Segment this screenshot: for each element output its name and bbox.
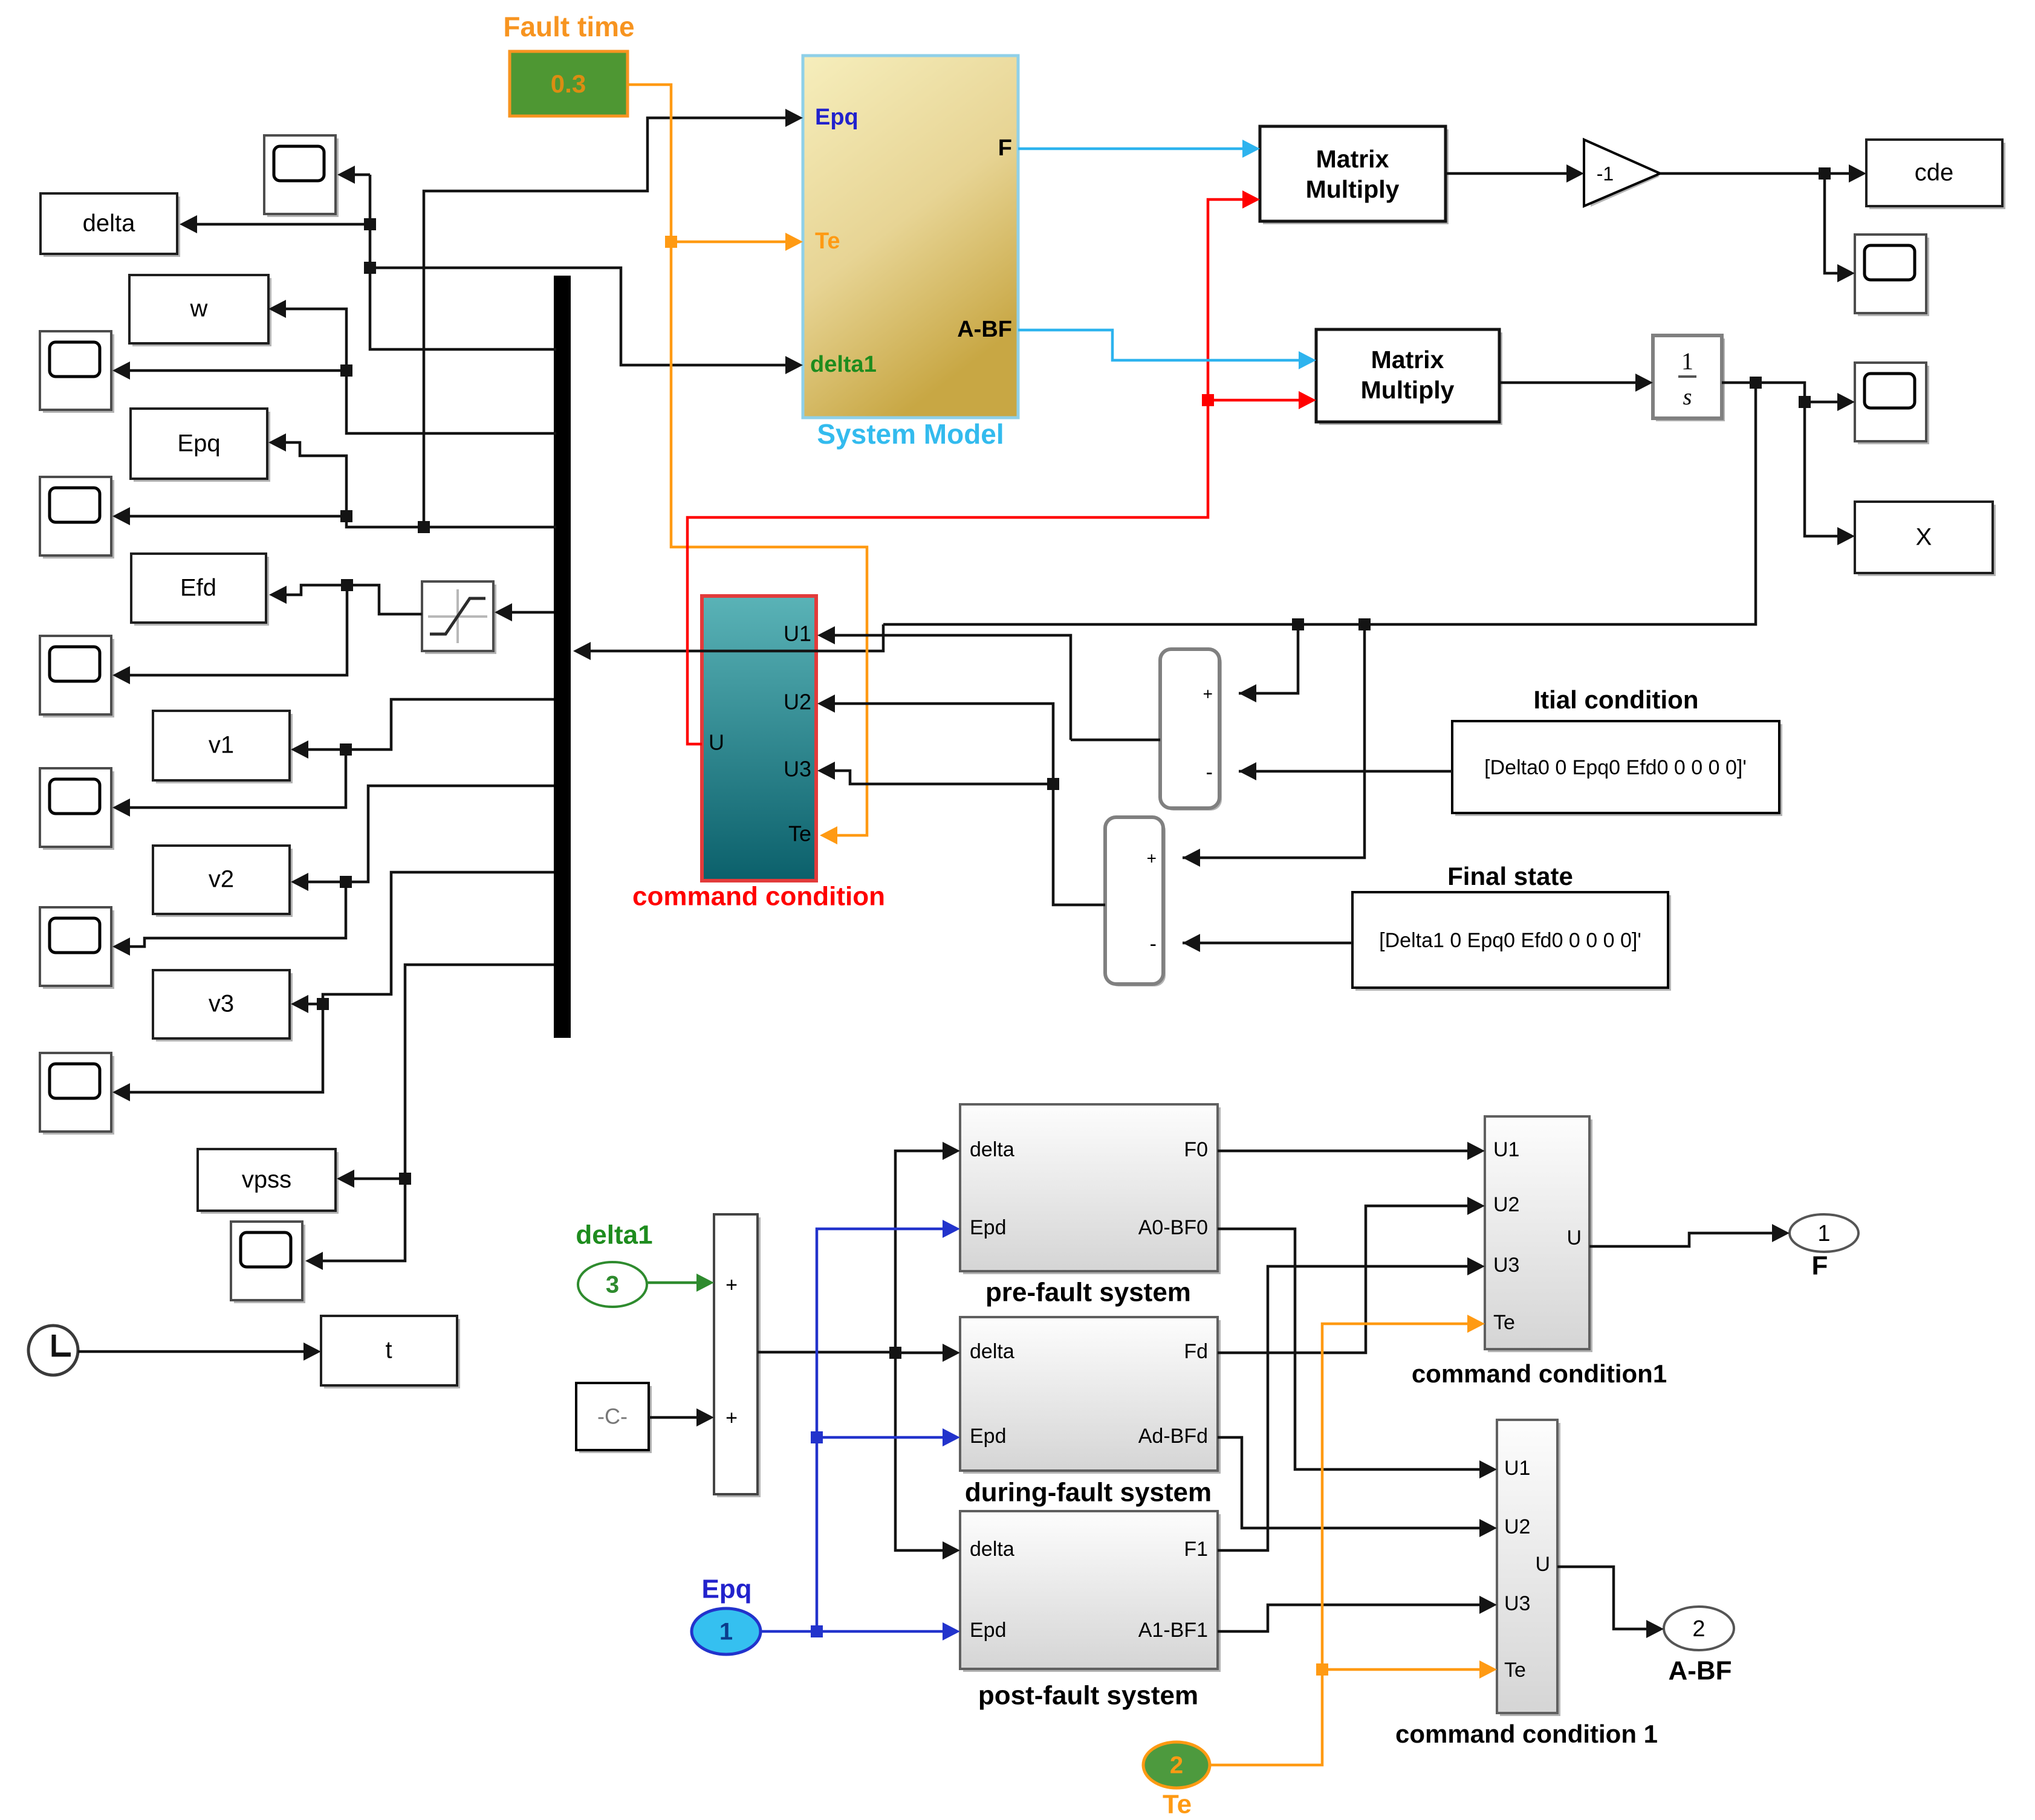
wire delta to during — [895, 1344, 960, 1362]
label pre-fault system — [985, 1278, 1191, 1307]
scope D — [40, 636, 114, 717]
label Fault time — [503, 11, 634, 42]
goto block X — [1855, 502, 1996, 576]
svg-text:Matrix: Matrix — [1316, 145, 1389, 173]
svg-text:A-BF: A-BF — [1668, 1656, 1732, 1686]
svg-text:Multiply: Multiply — [1361, 376, 1455, 404]
label A-BF (outport) — [1668, 1656, 1732, 1686]
svg-text:command condition: command condition — [632, 882, 885, 912]
wire delta to pre — [895, 1142, 960, 1352]
svg-text:U: U — [1535, 1553, 1550, 1576]
svg-text:post-fault system: post-fault system — [978, 1681, 1198, 1711]
wire Epq blue up — [817, 1220, 960, 1631]
svg-text:2: 2 — [1170, 1752, 1183, 1779]
svg-text:Efd: Efd — [180, 575, 216, 601]
wire to vpss — [337, 1170, 405, 1188]
junction — [340, 876, 352, 888]
wire cc2 U to A-BF — [1557, 1567, 1664, 1638]
svg-text:-C-: -C- — [597, 1404, 628, 1429]
wire Te orange to cc2 — [1322, 1660, 1497, 1679]
outport 2 A-BF — [1664, 1607, 1734, 1650]
svg-text:-: - — [1206, 761, 1213, 784]
svg-text:Ad-BFd: Ad-BFd — [1138, 1425, 1208, 1448]
wire F1 to cc1 U3 — [1218, 1257, 1485, 1550]
svg-text:command condition1: command condition1 — [1412, 1359, 1667, 1388]
wire delta vertical to bar — [370, 175, 556, 349]
svg-text:A1-BF1: A1-BF1 — [1138, 1619, 1208, 1642]
scope I — [1855, 235, 1929, 316]
svg-text:delta1: delta1 — [810, 352, 877, 377]
wire sum1 out — [1071, 739, 1160, 742]
svg-text:cde: cde — [1915, 160, 1954, 186]
svg-text:U: U — [1566, 1226, 1582, 1249]
svg-text:A0-BF0: A0-BF0 — [1138, 1216, 1208, 1239]
wire bar tap v2 — [291, 786, 554, 891]
wire bar tap vpss — [305, 965, 554, 1270]
svg-text:Final state: Final state — [1447, 862, 1573, 890]
sum block 3 (tall) — [714, 1214, 761, 1497]
svg-text:Itial condition: Itial condition — [1534, 685, 1699, 714]
svg-text:Te: Te — [1493, 1311, 1515, 1334]
junction — [340, 743, 352, 756]
label F (outport) — [1812, 1251, 1828, 1281]
wire sum2 out up — [817, 695, 1105, 905]
label command condition 1 — [1395, 1720, 1658, 1748]
goto block v1 — [153, 711, 293, 783]
label Final state — [1447, 862, 1573, 890]
wire A1-BF1 to cc2 U3 — [1218, 1596, 1497, 1631]
wire MM1 to gain — [1446, 164, 1584, 183]
wire to scope A — [337, 166, 370, 184]
svg-text:F: F — [998, 135, 1012, 161]
wire cc1 U to F — [1589, 1224, 1790, 1246]
svg-text:v2: v2 — [209, 866, 234, 893]
matrix multiply block 2 — [1316, 329, 1502, 425]
svg-text:during-fault system: during-fault system — [965, 1478, 1212, 1507]
inport 2 Te — [1143, 1742, 1210, 1788]
clock block — [28, 1326, 78, 1375]
goto block delta — [41, 193, 180, 257]
inport 1 Epq — [692, 1608, 761, 1654]
goto block vpss — [198, 1149, 339, 1214]
junction orange — [665, 236, 677, 248]
svg-text:U2: U2 — [1504, 1515, 1530, 1538]
wire to scope F — [112, 882, 346, 956]
wire state into bar — [573, 624, 883, 660]
svg-text:[Delta1 0 Epq0 Efd0 0 0 0 0]': [Delta1 0 Epq0 Efd0 0 0 0 0]' — [1379, 929, 1641, 952]
bus bar (mux line) — [554, 276, 571, 1038]
svg-text:U1: U1 — [1504, 1457, 1530, 1480]
wire fault time orange — [628, 85, 867, 844]
matrix multiply block 1 — [1260, 126, 1449, 224]
label System Model — [817, 418, 1004, 450]
constant block initial condition — [1452, 721, 1782, 816]
label command condition1 — [1412, 1359, 1667, 1388]
wire Te orange — [1210, 1315, 1485, 1765]
wire A-BF to MM2 — [1018, 330, 1316, 369]
svg-text:Te: Te — [815, 228, 840, 254]
svg-text:U3: U3 — [1493, 1254, 1519, 1277]
wire x to sum1 plus — [1239, 624, 1298, 702]
wire delta1 to sum3 — [647, 1274, 714, 1292]
scope H — [231, 1222, 305, 1303]
subsystem System Model — [803, 56, 1018, 418]
subsystem command condition — [702, 596, 816, 881]
svg-text:delta1: delta1 — [576, 1220, 652, 1250]
label command condition — [632, 882, 885, 912]
wire integrator out — [1722, 383, 1855, 545]
svg-text:v3: v3 — [209, 991, 234, 1017]
svg-text:U2: U2 — [1493, 1193, 1519, 1216]
svg-text:Te: Te — [788, 821, 811, 846]
wire bar tap Epq — [268, 433, 556, 527]
svg-text:Fd: Fd — [1184, 1340, 1208, 1363]
subsystem during-fault system — [960, 1317, 1221, 1474]
svg-text:A-BF: A-BF — [957, 317, 1012, 342]
svg-text:3: 3 — [606, 1272, 619, 1298]
label Epq (inport) — [701, 1575, 751, 1604]
junction — [341, 579, 353, 591]
wire F0 to cc1 U1 — [1218, 1142, 1485, 1160]
svg-text:Fault time: Fault time — [503, 11, 634, 42]
wire red to MM2 — [1208, 391, 1316, 409]
svg-text:U3: U3 — [1504, 1592, 1530, 1615]
wire to scope C — [112, 507, 346, 525]
svg-text:delta: delta — [970, 1340, 1014, 1363]
wire bar tap v1 — [291, 699, 554, 759]
subsystem command condition1 — [1485, 1116, 1592, 1352]
wire A0-BF0 to cc2 U1 — [1218, 1229, 1497, 1478]
wire IC to sum1 minus — [1239, 762, 1452, 780]
wire state feedback down — [883, 383, 1756, 624]
junction — [1358, 618, 1371, 630]
junction — [1819, 167, 1831, 180]
svg-text:command condition 1: command condition 1 — [1395, 1720, 1658, 1748]
svg-text:U1: U1 — [784, 621, 811, 646]
sum block 1 — [1160, 649, 1222, 811]
svg-text:+: + — [1147, 849, 1157, 867]
svg-text:Matrix: Matrix — [1371, 346, 1444, 374]
wire red U loop — [687, 190, 1260, 744]
svg-text:F1: F1 — [1184, 1538, 1208, 1561]
scope A — [264, 135, 339, 217]
svg-text:Te: Te — [1504, 1659, 1526, 1682]
svg-text:[Delta0 0 Epq0 Efd0 0 0 0 0]': [Delta0 0 Epq0 Efd0 0 0 0 0]' — [1484, 756, 1747, 779]
svg-text:System Model: System Model — [817, 418, 1004, 450]
junction — [317, 998, 329, 1010]
scope G — [40, 1053, 114, 1135]
svg-text:Epd: Epd — [970, 1216, 1007, 1239]
junction — [364, 218, 376, 230]
outport 1 F — [1790, 1214, 1858, 1252]
junction red — [1202, 394, 1214, 406]
svg-text:F0: F0 — [1184, 1138, 1208, 1161]
svg-text:delta: delta — [83, 210, 135, 237]
svg-text:Epd: Epd — [970, 1619, 1007, 1642]
wire Fd to cc1 U2 — [1218, 1197, 1485, 1353]
svg-text:pre-fault system: pre-fault system — [985, 1278, 1191, 1307]
svg-text:U1: U1 — [1493, 1138, 1519, 1161]
wire to scope B — [112, 361, 346, 380]
goto block w — [129, 275, 271, 346]
svg-text:s: s — [1683, 384, 1692, 410]
svg-text:U3: U3 — [784, 757, 811, 782]
wire MM2 to integrator — [1499, 374, 1653, 392]
junction — [418, 521, 430, 533]
subsystem pre-fault system — [960, 1104, 1221, 1274]
scope B — [40, 331, 114, 413]
goto block v3 — [153, 970, 293, 1041]
wire to scope I — [1825, 173, 1855, 282]
junction blue — [811, 1431, 823, 1443]
svg-text:Epd: Epd — [970, 1425, 1007, 1448]
svg-text:0.3: 0.3 — [551, 70, 586, 98]
wire orange to Te SysModel — [671, 233, 803, 251]
label Itial condition — [1534, 685, 1699, 714]
scope C — [40, 477, 114, 559]
svg-text:X: X — [1916, 524, 1932, 551]
wire to scope D — [112, 585, 347, 684]
wire Epq blue during — [817, 1428, 960, 1446]
scope E — [40, 768, 114, 850]
svg-text:+: + — [725, 1274, 738, 1297]
junction — [889, 1347, 901, 1359]
svg-text:Epq: Epq — [177, 430, 220, 457]
wire x to sum2 plus — [1183, 624, 1365, 867]
wire bar tap saturation — [495, 603, 554, 621]
svg-text:Multiply: Multiply — [1306, 175, 1400, 203]
subsystem command condition 1 — [1497, 1420, 1560, 1716]
wire clock to t — [78, 1342, 321, 1361]
label Te (inport) — [1163, 1790, 1192, 1819]
svg-text:1: 1 — [1681, 348, 1693, 375]
junction — [1292, 618, 1304, 630]
wire F to MM1 — [1018, 140, 1260, 158]
subsystem post-fault system — [960, 1511, 1221, 1672]
svg-text:+: + — [1203, 684, 1213, 703]
wire gain to cde — [1660, 164, 1866, 183]
constant block 0.3 (fault time) — [510, 51, 628, 116]
goto block Epq — [131, 409, 270, 482]
svg-text:v1: v1 — [209, 732, 234, 759]
wire to scope G — [112, 1004, 323, 1101]
wire bar tap w — [268, 300, 556, 433]
saturation block — [422, 581, 496, 654]
svg-text:t: t — [385, 1337, 392, 1364]
label during-fault system — [965, 1478, 1212, 1507]
svg-text:2: 2 — [1692, 1616, 1705, 1642]
wire to System Model Epq — [424, 109, 803, 527]
goto block t — [321, 1316, 460, 1388]
svg-text:+: + — [725, 1407, 738, 1430]
wire to scope J — [1805, 393, 1855, 411]
constant block -C- — [576, 1383, 652, 1453]
inport 3 delta1 — [578, 1262, 647, 1307]
goto block v2 — [153, 846, 293, 917]
constant block final state — [1352, 892, 1671, 991]
wire -C- to sum3 — [649, 1408, 714, 1427]
svg-text:F: F — [1812, 1251, 1828, 1281]
goto block Efd — [131, 554, 269, 626]
scope J — [1855, 363, 1929, 444]
wire sat to Efd — [269, 585, 422, 614]
svg-text:Epq: Epq — [815, 105, 858, 130]
svg-text:w: w — [190, 296, 208, 322]
svg-text:-: - — [1150, 933, 1157, 956]
junction — [340, 510, 352, 522]
svg-text:U: U — [709, 730, 724, 755]
label post-fault system — [978, 1681, 1198, 1711]
integrator block 1/s — [1653, 335, 1725, 421]
junction — [1047, 778, 1059, 790]
junction — [399, 1173, 411, 1185]
scope F — [40, 907, 114, 989]
svg-text:U2: U2 — [784, 690, 811, 714]
svg-text:-1: -1 — [1597, 163, 1614, 184]
junction orange — [1316, 1663, 1328, 1676]
junction — [364, 262, 376, 274]
svg-text:delta: delta — [970, 1138, 1014, 1161]
wire Ad-BFd to cc2 U2 — [1218, 1437, 1497, 1537]
svg-text:1: 1 — [719, 1619, 733, 1645]
svg-text:1: 1 — [1817, 1221, 1830, 1246]
junction — [1750, 377, 1762, 389]
gain block -1 — [1584, 140, 1660, 207]
junction — [1799, 396, 1811, 408]
svg-text:delta: delta — [970, 1538, 1014, 1561]
wire bar tap v3 — [291, 872, 554, 1013]
wire to System Model delta1 — [370, 268, 803, 374]
wire FS to sum2 minus — [1183, 934, 1352, 952]
svg-text:Te: Te — [1163, 1790, 1192, 1819]
wire to U1 — [817, 626, 1071, 740]
wire to U3 — [817, 762, 1053, 784]
wire sum3 out delta — [758, 1352, 960, 1559]
junction — [340, 364, 352, 377]
wire to scope E — [112, 750, 346, 817]
label delta1 (inport) — [576, 1220, 652, 1250]
goto block cde — [1866, 140, 2005, 209]
svg-text:vpss: vpss — [242, 1167, 291, 1193]
sum block 2 — [1105, 817, 1166, 986]
wire to delta goto — [180, 215, 370, 233]
junction blue — [811, 1625, 823, 1637]
svg-text:Epq: Epq — [701, 1575, 751, 1604]
wire Epq blue — [761, 1622, 960, 1640]
